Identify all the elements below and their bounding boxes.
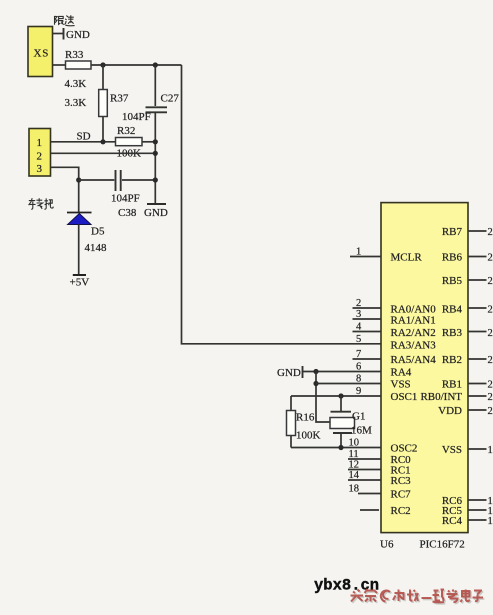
svg-text:2: 2 <box>488 253 493 264</box>
connector 1-2-3 <box>29 129 51 177</box>
svg-text:RB4: RB4 <box>442 304 463 316</box>
node VSS row <box>313 381 318 386</box>
svg-text:R32: R32 <box>117 125 135 137</box>
node C27 top <box>153 62 158 67</box>
svg-text:2: 2 <box>488 355 493 366</box>
svg-text:1: 1 <box>37 137 43 149</box>
svg-text:D5: D5 <box>91 226 105 238</box>
svg-text:+5V: +5V <box>70 277 90 289</box>
resistor R37 <box>65 65 129 142</box>
wire OSC2 row <box>291 447 381 449</box>
svg-text:1: 1 <box>488 516 493 527</box>
svg-text:RB6: RB6 <box>442 252 463 264</box>
svg-text:RA2/AN2: RA2/AN2 <box>391 327 436 339</box>
wire long vertical to RA3 <box>182 65 382 344</box>
svg-text:R37: R37 <box>110 93 129 105</box>
svg-text:RC4: RC4 <box>442 515 463 527</box>
wire pin1 SD row <box>51 141 116 143</box>
svg-text:2: 2 <box>488 380 493 391</box>
pin 15 RC4 <box>442 515 493 527</box>
svg-text:4148: 4148 <box>85 242 108 254</box>
svg-text:3.3K: 3.3K <box>65 97 87 109</box>
node R32 right <box>153 139 158 144</box>
svg-text:2: 2 <box>488 406 493 417</box>
svg-text:1: 1 <box>356 247 361 258</box>
svg-text:RA4: RA4 <box>391 367 412 379</box>
svg-text:5: 5 <box>356 334 361 345</box>
pin 17 RC6 <box>442 495 493 507</box>
wire R32 to C27 line <box>142 141 155 143</box>
pin 18 RC7 <box>349 484 412 501</box>
resistor R32 <box>116 125 143 160</box>
node GND/RA4 <box>313 369 318 374</box>
svg-text:1: 1 <box>488 445 493 456</box>
svg-text:RB1: RB1 <box>442 379 462 391</box>
svg-text:SD: SD <box>77 131 91 143</box>
node pin2 <box>153 151 158 156</box>
pin 1 MCLR <box>350 247 422 264</box>
pin 23 RB2 <box>442 354 493 366</box>
svg-text:RA5/AN4: RA5/AN4 <box>391 354 437 366</box>
svg-text:16M: 16M <box>351 425 372 437</box>
pin 19 VSS <box>442 444 493 456</box>
svg-text:RC3: RC3 <box>391 475 412 487</box>
label 转把 <box>29 198 54 209</box>
svg-text:VDD: VDD <box>438 405 462 417</box>
IC U6 PIC16F72 <box>380 203 468 551</box>
svg-text:RB2: RB2 <box>442 354 462 366</box>
svg-text:7: 7 <box>356 349 361 360</box>
svg-text:4: 4 <box>356 322 362 333</box>
pin 20 VDD <box>438 405 493 417</box>
node R37 top <box>100 62 105 67</box>
pin 9 OSC1 <box>356 386 417 403</box>
pin 24 RB3 <box>442 327 493 339</box>
svg-text:2: 2 <box>488 392 493 403</box>
pin 3 RA1/AN1 <box>353 309 436 327</box>
pin RC2 <box>360 505 411 517</box>
svg-text:3: 3 <box>356 309 361 320</box>
svg-text:RB3: RB3 <box>442 327 463 339</box>
svg-text:G1: G1 <box>352 411 365 423</box>
svg-text:104PF: 104PF <box>122 111 151 123</box>
pin 27 RB6 <box>442 252 493 264</box>
svg-text:2: 2 <box>37 151 43 163</box>
svg-text:C38: C38 <box>118 207 137 219</box>
pin 8 VSS <box>356 374 411 391</box>
svg-text:2: 2 <box>488 328 493 339</box>
pin 25 RB4 <box>442 304 493 316</box>
pin 7 RA5/AN4 <box>353 349 437 366</box>
ground (C27/C38 net) <box>144 204 168 219</box>
pin 6 RA4 <box>356 362 412 379</box>
node crystal bottom <box>338 445 343 450</box>
wire GND to RA4 <box>303 371 381 373</box>
svg-text:4.3K: 4.3K <box>65 78 87 90</box>
pin 4 RA2/AN2 <box>353 322 436 340</box>
capacitor C27 <box>122 65 179 204</box>
diode D5 <box>67 213 107 255</box>
svg-text:GND: GND <box>66 29 90 41</box>
svg-text:GND: GND <box>144 207 168 219</box>
svg-text:PIC16F72: PIC16F72 <box>420 539 465 551</box>
wire XS to R33 <box>53 64 66 66</box>
wire VSS row <box>316 383 381 385</box>
wire pin2 row <box>51 152 155 154</box>
crystal G1 <box>330 396 372 448</box>
svg-text:2: 2 <box>356 298 361 309</box>
GND tick (top) <box>63 28 65 40</box>
resistor R16 <box>287 396 321 448</box>
svg-text:2: 2 <box>488 305 493 316</box>
node crystal top <box>338 393 343 398</box>
wire XS pin to GND tick <box>53 33 64 35</box>
pin 5 RA3/AN3 <box>356 334 436 352</box>
resistor R33 <box>65 49 92 90</box>
node R37 bottom / SD <box>100 139 105 144</box>
pin 2 RA0/AN0 <box>353 298 437 316</box>
pin 16 RC5 <box>442 505 493 517</box>
pin 10 OSC2 <box>349 438 418 455</box>
svg-text:VSS: VSS <box>442 444 462 456</box>
svg-text:RB5: RB5 <box>442 275 463 287</box>
svg-text:RB7: RB7 <box>442 226 463 238</box>
label 限速 <box>55 15 75 26</box>
svg-text:GND: GND <box>277 367 301 379</box>
wire diode to +5V <box>78 225 80 276</box>
svg-text:104PF: 104PF <box>111 193 140 205</box>
svg-text:2: 2 <box>488 227 493 238</box>
wire OSC1 row <box>291 395 381 397</box>
GND label (RA4 net) <box>277 366 303 379</box>
svg-text:OSC2: OSC2 <box>391 443 418 455</box>
power +5V <box>70 275 90 289</box>
wire pin3 down to diode <box>51 167 79 212</box>
svg-text:U6: U6 <box>380 539 394 551</box>
pin 11 RC0 <box>348 449 411 466</box>
svg-text:12: 12 <box>349 460 360 471</box>
svg-text:18: 18 <box>349 484 360 495</box>
svg-text:VSS: VSS <box>391 379 411 391</box>
pin 21 RB0/INT <box>420 391 492 403</box>
node C38 right <box>153 177 158 182</box>
wire R33 to corner <box>91 64 182 66</box>
pin 28 RB7 <box>442 226 493 238</box>
pin 26 RB5 <box>442 275 493 287</box>
svg-text:XS: XS <box>34 48 50 60</box>
svg-text:R16: R16 <box>296 412 315 424</box>
svg-text:C27: C27 <box>161 93 180 105</box>
watermark 头条@和我一起学电子 <box>352 590 485 603</box>
svg-text:2: 2 <box>488 276 493 287</box>
svg-text:3: 3 <box>37 163 43 175</box>
svg-text:11: 11 <box>349 449 359 460</box>
svg-text:MCLR: MCLR <box>391 252 423 264</box>
connector XS <box>28 27 53 77</box>
svg-text:RC2: RC2 <box>391 505 411 517</box>
node pin3/C38 <box>76 177 81 182</box>
svg-text:100K: 100K <box>296 430 321 442</box>
svg-text:RA1/AN1: RA1/AN1 <box>391 315 436 327</box>
svg-text:OSC1: OSC1 <box>391 391 418 403</box>
svg-text:RC7: RC7 <box>391 489 412 501</box>
pin 14 RC3 <box>348 470 411 487</box>
svg-text:RA3/AN3: RA3/AN3 <box>391 340 437 352</box>
pin 22 RB1 <box>442 379 493 391</box>
wire GND down to resonator center <box>316 372 330 423</box>
svg-text:RB0/INT: RB0/INT <box>420 391 462 403</box>
capacitor C38 <box>79 170 156 219</box>
svg-text:R33: R33 <box>65 49 84 61</box>
svg-text:14: 14 <box>349 470 360 481</box>
pin 12 RC1 <box>348 460 411 477</box>
